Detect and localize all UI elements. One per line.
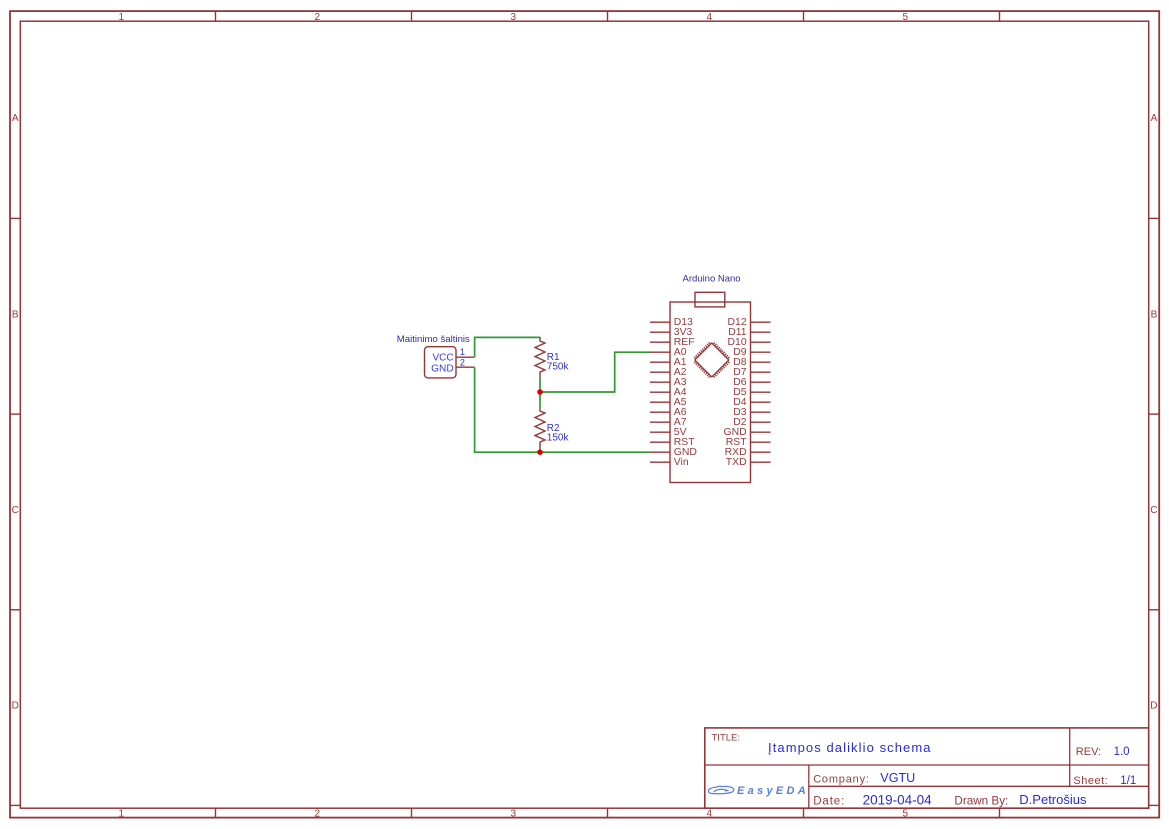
U1 pin D10 (right) <box>728 337 771 348</box>
title block grid <box>705 728 1149 808</box>
svg-text:150k: 150k <box>547 432 570 443</box>
svg-text:REV:: REV: <box>1076 746 1101 758</box>
U1 pin A6 (left) <box>650 407 687 418</box>
U1 pin A2 (left) <box>650 367 687 378</box>
svg-text:4: 4 <box>707 809 713 820</box>
P1 pin name VCC <box>432 352 453 363</box>
svg-text:2: 2 <box>315 12 321 23</box>
svg-text:GND: GND <box>431 363 453 374</box>
svg-text:TITLE:: TITLE: <box>712 732 741 743</box>
junction node B <box>537 449 543 455</box>
U1 chip diamond glyph <box>694 342 729 377</box>
svg-text:1: 1 <box>460 347 465 357</box>
U1 pin D13 (left) <box>650 317 693 328</box>
U1 pin A3 (left) <box>650 377 687 388</box>
company value VGTU <box>880 771 915 785</box>
svg-text:D: D <box>12 701 19 712</box>
label Company: <box>813 774 870 786</box>
label REV: <box>1076 746 1101 758</box>
svg-text:2019-04-04: 2019-04-04 <box>863 792 933 807</box>
U1 pin D3 (right) <box>733 407 770 418</box>
svg-text:EasyEDA: EasyEDA <box>737 785 809 797</box>
svg-text:1.0: 1.0 <box>1114 746 1130 758</box>
svg-text:Drawn By:: Drawn By: <box>954 795 1008 808</box>
wire VCC: P1 pin1 to R1 top <box>475 337 540 357</box>
svg-text:Date:: Date: <box>813 795 845 807</box>
label Drawn By: <box>954 795 1008 808</box>
svg-text:4: 4 <box>707 12 713 23</box>
svg-text:1: 1 <box>119 809 125 820</box>
U1 USB connector rect <box>695 292 725 307</box>
U1 pin A7 (left) <box>650 417 687 428</box>
svg-text:1: 1 <box>119 12 125 23</box>
IC U1 body <box>670 302 751 483</box>
svg-text:TXD: TXD <box>726 457 747 468</box>
svg-text:D.Petrošius: D.Petrošius <box>1019 792 1087 807</box>
label R2 <box>547 423 560 434</box>
label R1 <box>547 352 560 363</box>
wire: R2 bottom to node B <box>539 447 541 452</box>
rev value 1.0 <box>1114 746 1130 758</box>
U1 pin 3V3 (left) <box>650 327 693 338</box>
drawn by value D.Petrošius <box>1019 792 1087 807</box>
svg-text:VCC: VCC <box>432 352 453 363</box>
value 750k <box>547 361 570 372</box>
U1 pin Vin (left) <box>650 457 689 468</box>
svg-text:Vin: Vin <box>674 457 689 468</box>
U1 pin A0 (left) <box>650 347 687 358</box>
U1 pin GND (right) <box>724 427 771 438</box>
U1 pin D12 (right) <box>728 317 771 328</box>
label TITLE: <box>712 732 741 743</box>
P1 pin 1 <box>456 356 475 358</box>
U1 pin TXD (right) <box>726 457 771 468</box>
svg-text:Sheet:: Sheet: <box>1073 775 1108 787</box>
U1 pin D11 (right) <box>728 327 770 338</box>
P1 pin name GND <box>431 363 453 374</box>
P1 pin number 1 <box>460 347 465 357</box>
svg-text:D: D <box>1150 701 1157 712</box>
svg-text:VGTU: VGTU <box>880 771 915 785</box>
U1 pin D8 (right) <box>733 357 770 368</box>
U1 pin REF (left) <box>650 337 695 348</box>
U1 pin RST (right) <box>726 437 771 448</box>
title text <box>768 740 932 755</box>
U1 pin RXD (right) <box>725 447 771 458</box>
U1 pin D6 (right) <box>733 377 770 388</box>
label Maitinimo šaltinis <box>397 334 470 345</box>
svg-text:5: 5 <box>903 12 909 23</box>
U1 pin A1 (left) <box>650 357 687 368</box>
EasyEDA logo <box>708 785 809 797</box>
sheet value 1/1 <box>1120 775 1136 787</box>
label Date: <box>813 795 845 807</box>
svg-text:Company:: Company: <box>813 774 870 786</box>
svg-text:Arduino Nano: Arduino Nano <box>683 274 741 285</box>
connector P1 box (Maitinimo saltinis) <box>425 347 457 378</box>
label Sheet: <box>1073 775 1108 787</box>
U1 pin D4 (right) <box>733 397 770 408</box>
wire: R1 bottom to node A <box>539 377 541 392</box>
svg-text:5: 5 <box>903 809 909 820</box>
P1 pin number 2 <box>460 357 465 367</box>
wire: node A to R2 top <box>539 392 541 407</box>
U1 pin A4 (left) <box>650 387 687 398</box>
svg-text:Maitinimo šaltinis: Maitinimo šaltinis <box>397 334 470 345</box>
P1 pin 2 <box>456 366 475 368</box>
svg-text:Įtampos daliklio schema: Įtampos daliklio schema <box>768 740 932 755</box>
svg-text:750k: 750k <box>547 361 570 372</box>
svg-text:A: A <box>1151 113 1158 124</box>
svg-text:C: C <box>12 505 19 516</box>
resistor R1 <box>535 337 545 377</box>
svg-text:3: 3 <box>511 809 517 820</box>
U1 pin A5 (left) <box>650 397 687 408</box>
svg-text:C: C <box>1150 505 1157 516</box>
svg-text:2: 2 <box>460 357 465 367</box>
label Arduino Nano <box>683 274 741 285</box>
svg-text:1/1: 1/1 <box>1120 775 1136 787</box>
svg-text:B: B <box>1151 309 1158 320</box>
value 150k <box>547 432 570 443</box>
wire node B to Arduino GND <box>540 451 651 453</box>
U1 pin D9 (right) <box>733 347 770 358</box>
U1 pin D2 (right) <box>733 417 770 428</box>
junction node A <box>537 389 543 395</box>
resistor R2 <box>535 407 545 447</box>
svg-text:B: B <box>12 309 19 320</box>
U1 pin D7 (right) <box>733 367 770 378</box>
wire node A to Arduino A0 <box>540 352 651 392</box>
U1 pin D5 (right) <box>733 387 770 398</box>
U1 pin GND (left) <box>650 447 697 458</box>
U1 pin RST (left) <box>650 437 695 448</box>
U1 pin 5V (left) <box>650 427 687 438</box>
wire GND: P1 pin2 down to bottom rail <box>475 367 540 452</box>
svg-text:2: 2 <box>315 809 321 820</box>
svg-text:3: 3 <box>511 12 517 23</box>
svg-text:A: A <box>12 113 19 124</box>
date value 2019-04-04 <box>863 792 933 807</box>
